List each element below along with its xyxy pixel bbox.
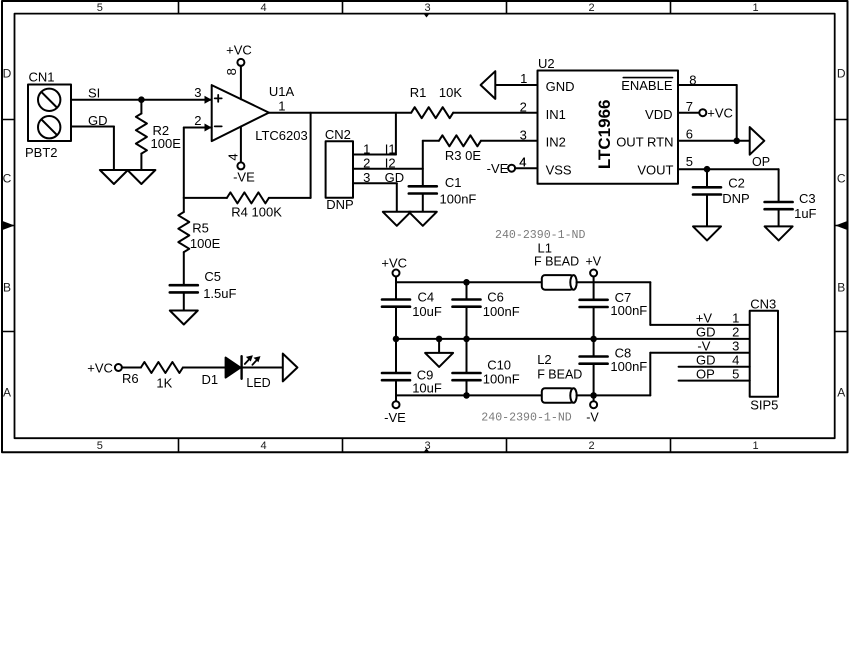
wire R6 to D1: [183, 367, 226, 369]
ground (CN2 GD): [383, 212, 411, 226]
node OUT RTN junction: [733, 138, 740, 145]
svg-text:OUT RTN: OUT RTN: [616, 135, 673, 150]
svg-text:+V: +V: [696, 311, 713, 326]
svg-text:D1: D1: [202, 372, 219, 387]
svg-text:+VC: +VC: [87, 361, 113, 376]
svg-text:-V: -V: [586, 410, 599, 424]
svg-text:+V: +V: [586, 255, 602, 269]
wire mid ground bus: [396, 338, 750, 340]
svg-text:R3 0E: R3 0E: [445, 148, 481, 163]
inductor L1 F BEAD: [534, 240, 579, 289]
svg-text:GND: GND: [546, 79, 575, 94]
wire CN2 pin1 I1 to IN1 net: [353, 113, 396, 157]
resistor R3 0E: [423, 135, 538, 163]
CN3 pin3 -V label: [697, 339, 739, 354]
svg-text:3: 3: [424, 2, 430, 14]
svg-text:IN1: IN1: [546, 107, 566, 122]
supply +V: [586, 255, 602, 283]
svg-text:VSS: VSS: [546, 162, 572, 177]
pin 3 arrowhead of U1A: [205, 96, 212, 104]
node bus junction at ground branch: [436, 336, 443, 343]
svg-text:U1A: U1A: [269, 84, 295, 99]
svg-text:5: 5: [97, 2, 103, 14]
svg-text:3: 3: [363, 170, 370, 185]
svg-text:SIP5: SIP5: [750, 398, 778, 413]
node bus junction at C6 column: [463, 336, 470, 343]
capacitor C4 10uF: [382, 282, 442, 339]
svg-text:L2: L2: [537, 352, 551, 367]
LED D1: [202, 355, 271, 390]
svg-text:I2: I2: [385, 156, 396, 171]
wire U1A pin2 to feedback node: [184, 128, 212, 198]
wire U2 pin8 ENABLE to OUT RTN node: [678, 85, 737, 141]
svg-text:C4: C4: [418, 290, 435, 305]
svg-text:C: C: [837, 171, 846, 185]
svg-text:C10: C10: [487, 358, 511, 373]
wire feedback from U1A output down to R4: [310, 113, 312, 198]
resistor R2 100E: [136, 100, 181, 170]
svg-text:CN2: CN2: [325, 127, 351, 142]
svg-text:GD: GD: [88, 113, 108, 128]
CN3 pin2 GD label: [696, 325, 739, 340]
svg-text:4: 4: [260, 440, 266, 452]
svg-text:+VC: +VC: [226, 43, 252, 58]
ground (GD of CN1): [100, 170, 128, 184]
svg-text:7: 7: [686, 99, 693, 114]
supply -VE at U1A pin 4: [225, 127, 255, 185]
capacitor C2 DNP: [693, 169, 750, 226]
svg-text:B: B: [3, 280, 11, 294]
svg-text:LTC6203: LTC6203: [255, 128, 308, 143]
svg-text:3: 3: [424, 440, 430, 452]
capacitor C5 1.5uF: [170, 269, 237, 310]
ground (below C3): [765, 226, 793, 240]
capacitor C10 100nF: [453, 339, 520, 396]
wire CN2 pin2 I2 to IN2 net: [353, 141, 423, 187]
svg-text:100nF: 100nF: [483, 304, 520, 319]
svg-text:C2: C2: [728, 175, 745, 190]
node bottom rail junction at C8 column: [590, 392, 597, 399]
svg-text:1K: 1K: [156, 375, 172, 390]
supply -VE at U2 pin4 VSS: [487, 155, 538, 176]
svg-text:F BEAD: F BEAD: [534, 255, 579, 269]
svg-text:2: 2: [363, 156, 370, 171]
svg-text:R6: R6: [122, 371, 139, 386]
inductor L2 F BEAD: [537, 352, 582, 403]
svg-text:R5: R5: [192, 220, 209, 235]
svg-text:GD: GD: [696, 325, 716, 340]
ground (below C1): [409, 212, 437, 226]
svg-text:IN2: IN2: [546, 135, 566, 150]
supply +VC (power entry): [381, 256, 407, 283]
supply -V: [586, 395, 599, 424]
svg-text:1: 1: [363, 141, 370, 156]
node bus junction at C7 column: [590, 336, 597, 343]
svg-text:2: 2: [520, 100, 527, 115]
svg-text:R1: R1: [410, 85, 427, 100]
svg-text:100nF: 100nF: [610, 359, 647, 374]
svg-text:100nF: 100nF: [610, 303, 647, 318]
svg-text:10K: 10K: [439, 85, 462, 100]
svg-text:C3: C3: [799, 191, 816, 206]
wire U2 pin5 VOUT net: [678, 168, 779, 170]
supply -VE (power entry): [384, 395, 406, 425]
svg-text:SI: SI: [88, 85, 100, 100]
IC U2 LTC1966: [519, 56, 696, 184]
svg-text:100nF: 100nF: [483, 371, 520, 386]
capacitor C9 10uF: [382, 339, 442, 396]
svg-text:10uF: 10uF: [412, 381, 442, 396]
svg-text:1uF: 1uF: [794, 206, 816, 221]
svg-text:CN3: CN3: [750, 297, 776, 312]
wire U2 pin1 GND to port: [495, 84, 537, 86]
svg-text:3: 3: [194, 85, 201, 100]
ground (mid bus): [425, 339, 453, 367]
svg-text:4: 4: [732, 352, 739, 367]
wire SI from CN1 pin1 to U1A pin3: [71, 85, 212, 100]
svg-text:1: 1: [752, 440, 758, 452]
wire L2 to -V and CN3 pin3: [577, 353, 750, 396]
port LED net (right-pointing triangle): [283, 354, 298, 382]
ground (below C5): [170, 311, 198, 325]
capacitor C6 100nF: [453, 282, 520, 339]
node bus junction at C4 column: [393, 336, 400, 343]
supply +VC at LED branch: [87, 361, 141, 376]
svg-text:100E: 100E: [151, 136, 182, 151]
supply +VC at U1A pin 8: [224, 43, 252, 100]
svg-text:1: 1: [520, 71, 527, 86]
svg-text:6: 6: [686, 127, 693, 142]
svg-text:L1: L1: [538, 240, 552, 255]
node SI junction: [138, 96, 145, 103]
svg-text:A: A: [837, 385, 845, 399]
svg-text:-VE: -VE: [384, 410, 406, 425]
svg-text:5: 5: [686, 154, 693, 169]
CN3 pin5 OP stub wire: [679, 366, 750, 381]
wire U2 pin6 OUT RTN to port OP: [678, 140, 750, 142]
svg-text:2: 2: [588, 2, 594, 14]
svg-text:4: 4: [519, 155, 526, 170]
svg-text:VOUT: VOUT: [637, 162, 673, 177]
svg-text:LTC1966: LTC1966: [595, 99, 614, 169]
svg-text:DNP: DNP: [722, 191, 749, 206]
svg-text:B: B: [837, 280, 845, 294]
svg-text:-V: -V: [697, 339, 710, 354]
svg-text:4: 4: [225, 153, 240, 160]
svg-text:1: 1: [278, 99, 285, 114]
svg-text:GD: GD: [385, 170, 405, 185]
svg-text:1: 1: [732, 311, 739, 326]
svg-text:C: C: [3, 171, 12, 185]
svg-text:-VE: -VE: [487, 161, 509, 176]
svg-text:OP: OP: [696, 366, 715, 381]
node VOUT junction: [704, 166, 711, 173]
wire GD from CN1 pin2 to ground: [71, 113, 114, 170]
port GND (left-pointing triangle): [481, 71, 496, 99]
pin 2 arrowhead of U1A: [205, 124, 212, 132]
node bottom rail junction at C10 column: [463, 392, 470, 399]
resistor R5 100E: [178, 198, 220, 285]
capacitor C3 1uF: [765, 169, 817, 226]
connector CN3 (SIP5): [750, 297, 779, 413]
resistor R4 100K: [184, 192, 311, 219]
CN3 pin4 GD stub wire: [679, 352, 750, 367]
wire D1 cathode to port: [242, 367, 283, 369]
wire U1A output to U2 IN1: [269, 112, 538, 114]
wire -VE rail to L2: [396, 394, 542, 396]
svg-text:4: 4: [260, 2, 266, 14]
svg-text:C6: C6: [487, 290, 504, 305]
port OP (right-pointing triangle): [750, 127, 770, 169]
ground (below C2): [693, 226, 721, 240]
resistor R6 1K: [122, 362, 183, 390]
wire L1 to +V and CN3 pin1: [577, 282, 750, 325]
svg-text:1.5uF: 1.5uF: [203, 286, 236, 301]
connector CN2 (DNP): [325, 127, 354, 212]
svg-text:LED: LED: [246, 376, 270, 390]
svg-text:-VE: -VE: [233, 169, 255, 184]
svg-text:D: D: [3, 66, 12, 80]
CN3 pin1 +V label: [696, 311, 740, 326]
capacitor C1 100nF: [409, 175, 477, 212]
svg-text:3: 3: [520, 128, 527, 143]
svg-text:2: 2: [194, 113, 201, 128]
svg-text:+VC: +VC: [381, 256, 407, 271]
svg-text:+VC: +VC: [707, 105, 733, 120]
svg-text:ENABLE: ENABLE: [621, 78, 673, 93]
svg-text:A: A: [3, 385, 11, 399]
op-amp U1A LTC6203: [194, 84, 307, 143]
svg-text:10uF: 10uF: [412, 304, 442, 319]
connector CN1 (PBT2 screw terminal): [25, 70, 71, 160]
svg-text:3: 3: [732, 339, 739, 354]
supply +VC at U2 pin7 VDD: [678, 105, 733, 120]
svg-text:U2: U2: [538, 56, 555, 71]
svg-text:1: 1: [752, 2, 758, 14]
wire CN2 pin3 GD to ground: [353, 170, 404, 212]
svg-text:2: 2: [732, 325, 739, 340]
svg-text:R4 100K: R4 100K: [231, 205, 282, 220]
svg-text:PBT2: PBT2: [25, 145, 58, 160]
svg-text:OP: OP: [752, 155, 770, 169]
resistor R1 10K: [410, 85, 463, 118]
svg-text:100E: 100E: [190, 236, 221, 251]
svg-text:8: 8: [224, 68, 239, 75]
capacitor C8 100nF: [580, 339, 648, 396]
svg-text:DNP: DNP: [326, 197, 353, 212]
svg-text:GD: GD: [696, 352, 716, 367]
svg-text:240-2390-1-ND: 240-2390-1-ND: [495, 229, 585, 242]
svg-text:C5: C5: [204, 269, 221, 284]
capacitor C7 100nF: [580, 282, 648, 339]
svg-text:100nF: 100nF: [440, 191, 477, 206]
svg-text:D: D: [837, 66, 846, 80]
svg-text:CN1: CN1: [29, 70, 55, 85]
svg-text:5: 5: [97, 440, 103, 452]
svg-text:F BEAD: F BEAD: [537, 368, 582, 382]
svg-text:I1: I1: [385, 141, 396, 156]
svg-text:C1: C1: [445, 175, 462, 190]
svg-text:VDD: VDD: [645, 107, 672, 122]
node top rail / C6 junction: [463, 279, 470, 286]
wire +VC rail to L1: [396, 281, 542, 283]
svg-text:5: 5: [732, 366, 739, 381]
svg-text:240-2390-1-ND: 240-2390-1-ND: [481, 411, 571, 424]
ground (below R2): [127, 170, 155, 184]
svg-text:2: 2: [588, 440, 594, 452]
